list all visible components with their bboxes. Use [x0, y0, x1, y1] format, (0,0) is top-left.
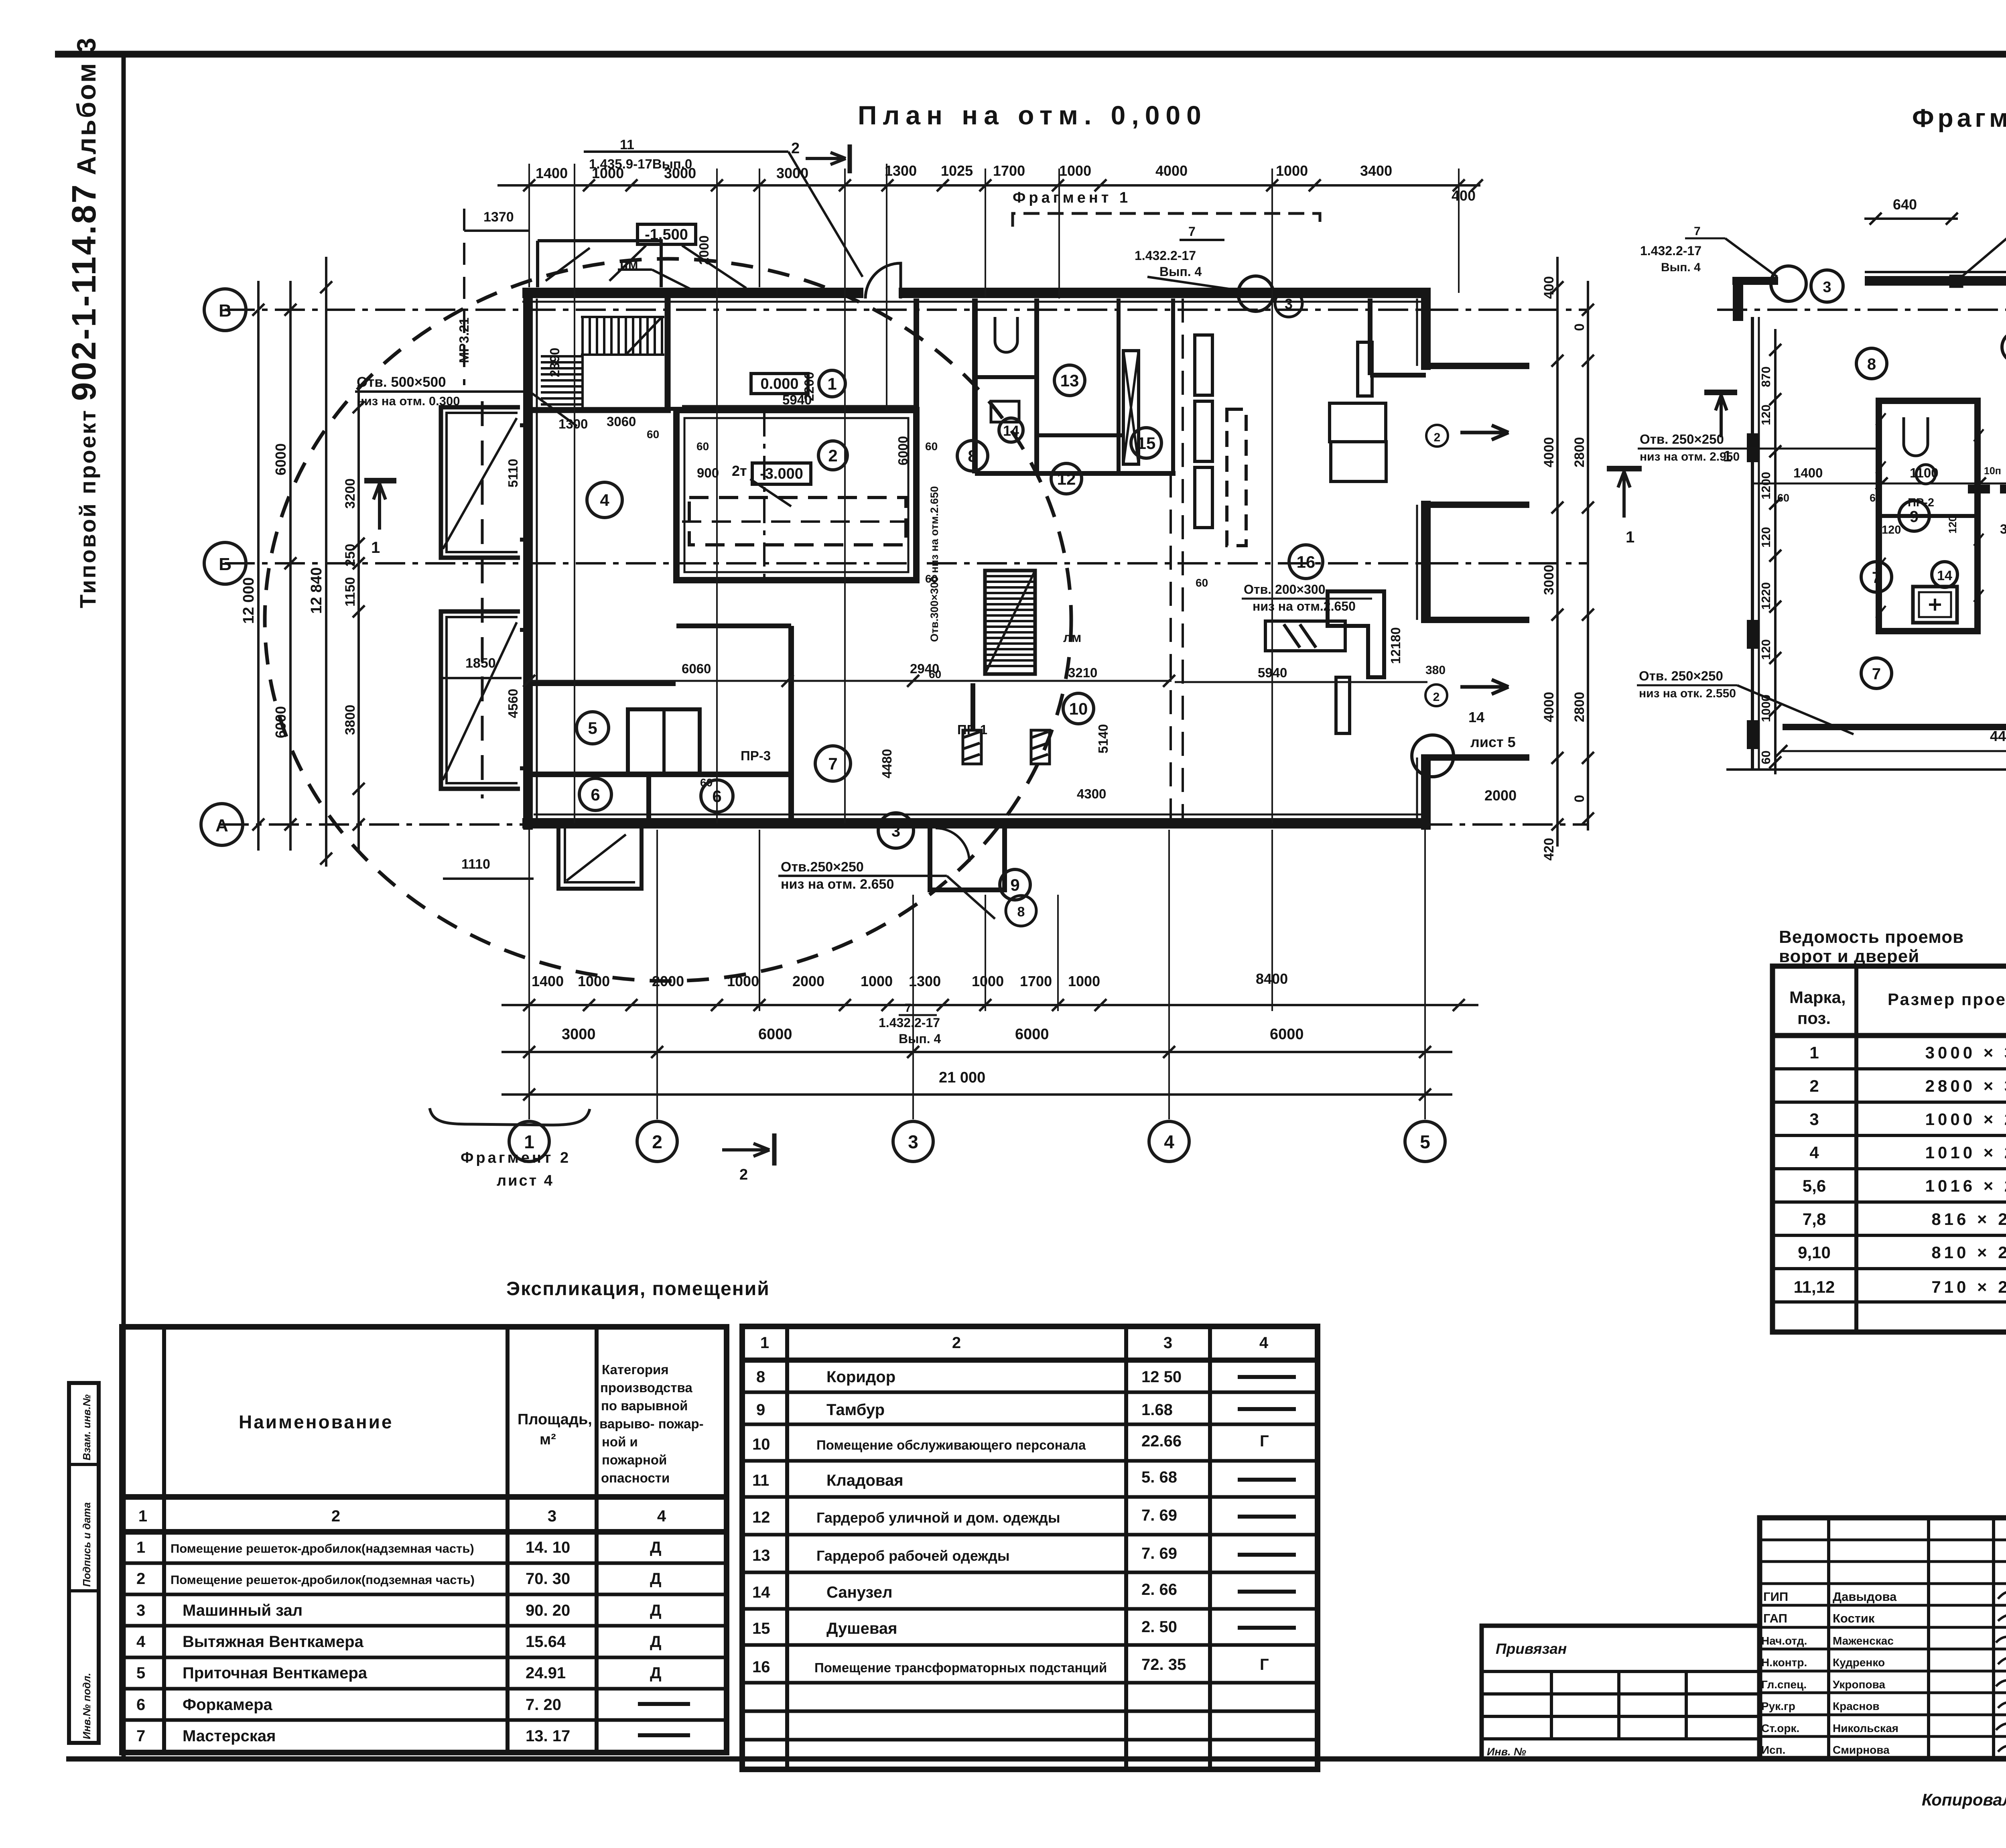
porch bottom-left: [558, 829, 642, 889]
crane dashed centerline: [682, 520, 913, 523]
svg-text:6000: 6000: [895, 436, 910, 465]
frag top wall: [1865, 276, 2006, 286]
svg-text:12 50: 12 50: [1141, 1368, 1182, 1386]
tambour door swing: [936, 828, 969, 862]
axis circle labels: [215, 301, 1430, 1152]
svg-text:10п: 10п: [1984, 465, 2001, 477]
svg-text:поз.: поз.: [1797, 1009, 1831, 1028]
svg-text:1: 1: [1809, 1043, 1819, 1062]
svg-text:ПР-2: ПР-2: [1908, 496, 1934, 509]
svg-text:60: 60: [925, 440, 938, 453]
svg-text:4560: 4560: [506, 689, 520, 718]
svg-text:3: 3: [136, 1602, 145, 1619]
crane dashed rect: [689, 498, 906, 545]
svg-text:2000: 2000: [792, 973, 824, 989]
right explication rows: [752, 1368, 1269, 1676]
svg-text:24.91: 24.91: [526, 1664, 566, 1682]
svg-text:Категория: Категория: [602, 1362, 669, 1377]
platform diagonal: [546, 248, 590, 281]
svg-text:Помещение трансформаторных под: Помещение трансформаторных подстанций: [814, 1660, 1107, 1675]
svg-text:2: 2: [828, 446, 837, 465]
svg-text:1: 1: [371, 539, 380, 556]
svg-text:14. 10: 14. 10: [526, 1539, 570, 1556]
svg-text:1370: 1370: [483, 209, 514, 225]
svg-text:420: 420: [1541, 838, 1557, 861]
svg-text:Гардероб уличной и дом. одежд: Гардероб уличной и дом. одежды: [816, 1509, 1060, 1526]
svg-text:12 000: 12 000: [240, 577, 257, 624]
svg-text:900: 900: [697, 465, 719, 480]
room16 rect e: [1330, 403, 1386, 442]
axis circle Б: [204, 542, 246, 584]
svg-text:7: 7: [1872, 569, 1881, 587]
tank 2: [441, 611, 520, 789]
axis circle 3: [893, 1121, 933, 1162]
svg-text:1300: 1300: [885, 162, 917, 179]
rotated interior dims: [457, 236, 1403, 778]
svg-text:120: 120: [1759, 404, 1773, 425]
svg-text:Маженскас: Маженскас: [1833, 1635, 1894, 1647]
svg-text:Гардероб рабочей одежды: Гардероб рабочей одежды: [816, 1547, 1010, 1564]
svg-text:2: 2: [652, 1131, 662, 1152]
svg-text:380: 380: [2000, 522, 2006, 536]
svg-text:1016 × 2370: 1016 × 2370: [1925, 1176, 2006, 1195]
svg-text:Размер проема, мм: Размер проема, мм: [1888, 990, 2006, 1009]
svg-text:90. 20: 90. 20: [526, 1602, 570, 1619]
right section mark 1: [1607, 466, 1642, 471]
svg-text:Душевая: Душевая: [826, 1620, 897, 1637]
svg-text:60: 60: [647, 428, 659, 441]
leader lines upper area: [355, 152, 1240, 426]
frag detail circle: [1771, 266, 1806, 301]
svg-text:4000: 4000: [1541, 692, 1557, 722]
bottom chain extensions: [529, 830, 1425, 1119]
frag rotated dims: [1947, 244, 2006, 678]
frag left dim chain: [1774, 329, 1777, 774]
svg-text:-3.000: -3.000: [760, 465, 803, 482]
bay2 stub walls: [1421, 617, 1529, 623]
svg-text:72. 35: 72. 35: [1141, 1656, 1186, 1673]
svg-text:ГАП: ГАП: [1763, 1611, 1787, 1625]
svg-text:8: 8: [968, 447, 977, 465]
svg-text:Помещение обслуживающего персо: Помещение обслуживающего персонала: [816, 1438, 1086, 1452]
svg-text:опасности: опасности: [601, 1470, 670, 1485]
svg-text:9,10: 9,10: [1798, 1243, 1831, 1262]
svg-text:1000: 1000: [578, 973, 610, 989]
MAINDIMS: [201, 137, 1642, 1189]
room circles: [577, 365, 1323, 900]
svg-text:производства: производства: [600, 1380, 692, 1395]
right explication table grid: [742, 1326, 1318, 1769]
axis circle 5: [1405, 1121, 1445, 1162]
fragment2 brace: [430, 1108, 590, 1125]
svg-text:1: 1: [138, 1507, 147, 1525]
svg-text:Нач.отд.: Нач.отд.: [1761, 1635, 1807, 1647]
svg-text:ПР-3: ПР-3: [741, 748, 771, 763]
svg-text:2800 × 3000: 2800 × 3000: [1925, 1076, 2006, 1095]
svg-text:3: 3: [1285, 296, 1293, 312]
svg-text:7,8: 7,8: [1803, 1210, 1826, 1229]
svg-text:2000: 2000: [1484, 787, 1517, 804]
tambour piers hatched: [963, 730, 1050, 764]
wall x2284 room1 east: [914, 299, 919, 410]
svg-text:6000: 6000: [272, 706, 289, 738]
svg-text:3800: 3800: [343, 705, 358, 735]
closet walls: [628, 709, 700, 774]
svg-text:6000: 6000: [1015, 1026, 1049, 1043]
top section arrow 2: [806, 152, 846, 164]
svg-text:Д: Д: [650, 1539, 662, 1556]
svg-text:4300: 4300: [1077, 786, 1106, 801]
frag sanitary partition: [1879, 514, 1978, 518]
svg-text:ПР-1: ПР-1: [957, 722, 987, 737]
svg-text:5: 5: [588, 719, 597, 737]
door table rows: [1794, 1043, 2006, 1296]
dash marks col4: [1238, 1377, 1296, 1628]
1850 dim: [443, 677, 522, 679]
1110 dim: [443, 877, 534, 880]
svg-text:14: 14: [752, 1584, 770, 1601]
svg-text:4: 4: [657, 1507, 666, 1525]
svg-text:Давыдова: Давыдова: [1833, 1590, 1897, 1604]
svg-text:14: 14: [1468, 709, 1484, 725]
svg-text:3060: 3060: [607, 414, 636, 429]
elevation box -3.000: [752, 463, 811, 484]
svg-text:5110: 5110: [506, 459, 520, 487]
svg-text:1025: 1025: [941, 162, 973, 179]
svg-text:1000: 1000: [861, 973, 893, 989]
room16 equipment rect a: [1195, 335, 1212, 395]
svg-text:3: 3: [548, 1507, 556, 1525]
wall y1703: [528, 680, 676, 686]
svg-text:1100: 1100: [1910, 465, 1939, 480]
1370 dim: [464, 229, 529, 232]
svg-text:12180: 12180: [1388, 627, 1403, 664]
svg-text:3: 3: [1809, 1110, 1819, 1129]
svg-text:7: 7: [136, 1727, 145, 1745]
svg-text:4000: 4000: [1541, 437, 1557, 467]
axis line Б: [225, 562, 1589, 565]
svg-text:Экспликация, помещений: Экспликация, помещений: [506, 1278, 770, 1300]
frag sanitary block: [1879, 401, 1978, 631]
frag left wall stub: [1733, 281, 1743, 321]
svg-text:Наименование: Наименование: [239, 1411, 393, 1432]
margin stamp box: [69, 1383, 99, 1743]
right explication header: [760, 1334, 1269, 1352]
room16 rect d: [1358, 342, 1372, 396]
left section mark 1: [364, 478, 396, 483]
svg-text:низ на отк. 2.550: низ на отк. 2.550: [1639, 687, 1736, 700]
svg-text:Рук.гр: Рук.гр: [1761, 1700, 1795, 1712]
svg-text:Взам. инв.№: Взам. инв.№: [81, 1394, 93, 1460]
svg-text:низ на отм. 2.650: низ на отм. 2.650: [781, 877, 894, 892]
svg-text:Кладовая: Кладовая: [826, 1472, 904, 1489]
svg-text:400: 400: [1452, 187, 1476, 204]
top exterior wall: [522, 288, 863, 298]
svg-text:120: 120: [1882, 524, 1901, 536]
svg-text:70. 30: 70. 30: [526, 1570, 570, 1588]
room16 equipment rect b: [1195, 401, 1212, 461]
detail circle top right: [1238, 276, 1273, 311]
svg-text:1400: 1400: [536, 165, 568, 181]
svg-text:8: 8: [1867, 355, 1876, 373]
svg-text:4: 4: [136, 1633, 146, 1651]
svg-text:Вытяжная Венткамера: Вытяжная Венткамера: [183, 1633, 364, 1651]
svg-text:1: 1: [1723, 448, 1732, 465]
svg-text:60: 60: [1759, 751, 1773, 764]
bay1 stub walls: [1421, 363, 1529, 369]
left dim line 12840: [325, 257, 327, 867]
svg-text:Фрагмент 2: Фрагмент 2: [461, 1149, 571, 1166]
frag room circles: [1856, 332, 2006, 688]
svg-text:Привязан: Привязан: [1496, 1641, 1567, 1657]
svg-text:810 × 2070: 810 × 2070: [1931, 1243, 2006, 1262]
room16 rect g: [1336, 677, 1350, 733]
svg-text:Ведомость проемов: Ведомость проемов: [1779, 927, 1964, 947]
svg-text:4: 4: [1809, 1143, 1819, 1162]
room16 hatched box: [1265, 621, 1345, 651]
elevation box -1.500: [638, 224, 696, 244]
top chain labels: [536, 162, 1476, 204]
svg-text:Укропова: Укропова: [1833, 1678, 1885, 1691]
svg-text:11: 11: [620, 137, 634, 152]
svg-text:Д: Д: [650, 1570, 662, 1588]
svg-text:Инв. №: Инв. №: [1487, 1746, 1526, 1758]
frag corridor wall: [1783, 724, 2006, 730]
svg-text:Отв.300×300 низ на отм.2.650: Отв.300×300 низ на отм.2.650: [928, 486, 940, 642]
top dim chain line: [497, 184, 1480, 187]
svg-text:Тамбур: Тамбур: [826, 1401, 885, 1419]
svg-text:1000 × 2400: 1000 × 2400: [1925, 1110, 2006, 1129]
MAINPLAN: [219, 152, 1589, 981]
svg-text:4000: 4000: [1155, 162, 1188, 179]
svg-text:1.432.2-17: 1.432.2-17: [1135, 248, 1196, 263]
svg-text:4: 4: [1259, 1334, 1269, 1352]
svg-text:Санузел: Санузел: [826, 1584, 893, 1601]
svg-text:2800: 2800: [1572, 692, 1587, 722]
svg-text:5140: 5140: [1096, 724, 1111, 753]
svg-text:2. 66: 2. 66: [1141, 1581, 1177, 1598]
svg-text:Отв. 500×500: Отв. 500×500: [357, 374, 446, 390]
detail circle entrance8: [1006, 896, 1036, 926]
svg-text:Форкамера: Форкамера: [183, 1696, 273, 1714]
svg-text:13: 13: [752, 1547, 770, 1564]
fragment1 bracket: [1013, 213, 1320, 227]
bay arrows: [1460, 425, 1509, 440]
frag inner dim chain: [1753, 483, 2006, 485]
left dim line tanks: [357, 385, 360, 851]
svg-text:120: 120: [1759, 527, 1773, 548]
svg-text:ворот и дверей: ворот и дверей: [1779, 946, 1919, 966]
elevation texts: [645, 226, 803, 482]
svg-text:варыво- пожар-: варыво- пожар-: [599, 1416, 704, 1431]
svg-text:2т: 2т: [732, 463, 747, 479]
room16 NE wall return: [1368, 299, 1373, 375]
svg-text:Коридор: Коридор: [826, 1368, 895, 1386]
svg-text:816 × 2030: 816 × 2030: [1931, 1210, 2006, 1229]
svg-text:1850: 1850: [465, 656, 496, 671]
tambour 9 below wall: [930, 829, 1005, 890]
EXPLTABLES: [122, 1326, 1318, 1769]
FRAGPLAN: [1637, 143, 2006, 869]
TITLEBLOCK: [1482, 1518, 2006, 1759]
svg-text:12 840: 12 840: [308, 567, 325, 614]
svg-text:3000: 3000: [776, 165, 808, 181]
svg-text:низ на отм. 0.300: низ на отм. 0.300: [357, 394, 460, 408]
svg-text:2: 2: [331, 1507, 340, 1525]
svg-text:9: 9: [756, 1401, 765, 1419]
svg-text:5: 5: [136, 1664, 145, 1682]
door mark circle 2 upper: [1426, 425, 1448, 447]
svg-text:1700: 1700: [993, 162, 1025, 179]
svg-text:14: 14: [1937, 568, 1952, 583]
left explication table grid: [122, 1327, 727, 1753]
corridor wall solid upper: [1171, 299, 1175, 473]
svg-text:0: 0: [1572, 323, 1587, 331]
svg-text:3400: 3400: [1360, 162, 1392, 179]
signatures squiggles: [1996, 1588, 2006, 1752]
stair block wall horizontal: [528, 407, 671, 413]
svg-text:21 000: 21 000: [939, 1069, 985, 1086]
frag 4480 dim line: [1781, 750, 2006, 752]
door mark circle 2 lower: [1425, 684, 1447, 706]
svg-text:лист 4: лист 4: [497, 1172, 554, 1189]
svg-text:6: 6: [591, 785, 600, 804]
svg-text:2200: 2200: [802, 372, 816, 401]
sanitary block walls: [972, 299, 978, 473]
MR3.21 dashed boundary: [463, 209, 465, 385]
svg-text:10: 10: [1069, 699, 1088, 718]
svg-text:400: 400: [1541, 276, 1557, 299]
svg-text:60: 60: [1196, 577, 1208, 589]
svg-text:4: 4: [600, 491, 609, 510]
svg-text:7. 69: 7. 69: [1141, 1507, 1177, 1524]
left exterior wall: [523, 288, 533, 830]
machine hall walls: [676, 410, 916, 580]
top chain extension lines: [529, 164, 1459, 823]
svg-text:2: 2: [791, 140, 800, 157]
vent shaft with X: [1123, 351, 1139, 464]
svg-text:120: 120: [1759, 639, 1773, 660]
svg-text:1000: 1000: [972, 973, 1004, 989]
axis circle 2: [637, 1121, 677, 1162]
svg-text:по варывной: по варывной: [601, 1398, 688, 1413]
svg-text:Площадь,: Площадь,: [518, 1411, 592, 1428]
svg-text:3000: 3000: [1541, 565, 1557, 595]
svg-text:1.435.9-17Вып.0: 1.435.9-17Вып.0: [589, 156, 692, 171]
svg-text:пожарной: пожарной: [602, 1452, 667, 1467]
svg-text:13: 13: [1060, 371, 1079, 390]
svg-text:6000: 6000: [1270, 1026, 1304, 1043]
svg-text:12: 12: [752, 1509, 770, 1526]
svg-text:1200: 1200: [1759, 472, 1773, 500]
svg-text:13. 17: 13. 17: [526, 1727, 570, 1745]
svg-text:8: 8: [1017, 904, 1025, 920]
svg-text:870: 870: [1759, 366, 1773, 387]
frag top wall inner line: [1865, 271, 2006, 273]
svg-text:60: 60: [1777, 492, 1789, 504]
tanks dashed axis: [481, 401, 484, 798]
svg-text:2. 50: 2. 50: [1141, 1618, 1177, 1636]
svg-text:Ст.орк.: Ст.орк.: [1761, 1722, 1799, 1734]
hall top wall: [668, 407, 916, 411]
svg-text:Помещение решеток-дробилок(над: Помещение решеток-дробилок(надземная час…: [171, 1541, 474, 1556]
svg-text:Мастерская: Мастерская: [183, 1727, 276, 1745]
frag top 640 dim: [1864, 217, 1958, 220]
svg-text:4480: 4480: [1990, 728, 2006, 744]
svg-text:3000: 3000: [562, 1026, 596, 1043]
svg-text:11,12: 11,12: [1794, 1277, 1835, 1296]
svg-text:1400: 1400: [1793, 465, 1823, 480]
svg-text:7: 7: [905, 1001, 912, 1015]
svg-text:План на отм. 0,000: План на отм. 0,000: [858, 100, 1207, 130]
frag toilet: [1904, 417, 1928, 456]
svg-text:6060: 6060: [682, 661, 711, 676]
svg-text:пм: пм: [620, 257, 638, 272]
svg-text:3: 3: [891, 822, 900, 840]
corridor double dashed walls: [1169, 473, 1172, 822]
svg-text:Кудренко: Кудренко: [1833, 1656, 1885, 1669]
svg-text:0: 0: [1572, 795, 1587, 802]
room16 rect f: [1331, 442, 1386, 481]
frag basin circle: [1916, 465, 1935, 484]
room16 L-shape: [1328, 591, 1384, 677]
svg-text:Д: Д: [650, 1664, 662, 1682]
svg-text:6: 6: [712, 787, 721, 806]
svg-text:1110: 1110: [461, 857, 490, 872]
svg-text:5. 68: 5. 68: [1141, 1468, 1177, 1486]
svg-text:8: 8: [756, 1368, 765, 1386]
svg-text:1.432.2-17: 1.432.2-17: [1640, 244, 1701, 258]
svg-text:МР3.21: МР3.21: [457, 317, 471, 363]
svg-text:Отв. 250×250: Отв. 250×250: [1640, 432, 1724, 447]
svg-text:15.64: 15.64: [526, 1633, 566, 1651]
machine hall inner line: [684, 418, 908, 572]
svg-text:Краснов: Краснов: [1833, 1700, 1880, 1712]
svg-text:Смирнова: Смирнова: [1833, 1744, 1890, 1756]
svg-text:15: 15: [1137, 434, 1156, 453]
axis circle В: [204, 289, 246, 331]
svg-text:1000: 1000: [727, 973, 759, 989]
left dim line 6000s: [289, 281, 292, 851]
frag niche mark: [1951, 276, 1962, 286]
svg-text:1000: 1000: [1059, 162, 1091, 179]
svg-text:ГИП: ГИП: [1763, 1590, 1788, 1604]
svg-text:3200: 3200: [343, 478, 358, 509]
svg-text:16: 16: [1297, 552, 1316, 571]
crane radius dashed ellipse: [265, 259, 1071, 981]
svg-text:Г: Г: [1260, 1432, 1269, 1450]
svg-text:15: 15: [752, 1620, 770, 1637]
svg-text:1010 × 2370: 1010 × 2370: [1925, 1143, 2006, 1162]
svg-text:Подпись и дата: Подпись и дата: [81, 1502, 93, 1587]
frag axis Б line: [1717, 309, 2006, 311]
right exterior wall lower: [1421, 754, 1431, 830]
left dim line 12000: [257, 281, 260, 851]
svg-text:1.68: 1.68: [1141, 1401, 1173, 1419]
svg-text:3: 3: [908, 1131, 918, 1152]
svg-text:1: 1: [760, 1334, 769, 1352]
svg-text:1400: 1400: [532, 973, 564, 989]
room16 equipment rect c: [1195, 467, 1212, 528]
signature rows text: [1761, 1590, 1898, 1756]
bottom chain 3: [501, 1093, 1452, 1096]
LEFTMARGIN: [65, 36, 103, 1743]
2t leader: [750, 479, 791, 506]
frag sanitary hatch: [1876, 413, 1984, 618]
svg-text:710 × 2070: 710 × 2070: [1931, 1277, 2006, 1296]
svg-text:Вып. 4: Вып. 4: [1661, 261, 1701, 274]
porch diagonal: [566, 835, 626, 881]
